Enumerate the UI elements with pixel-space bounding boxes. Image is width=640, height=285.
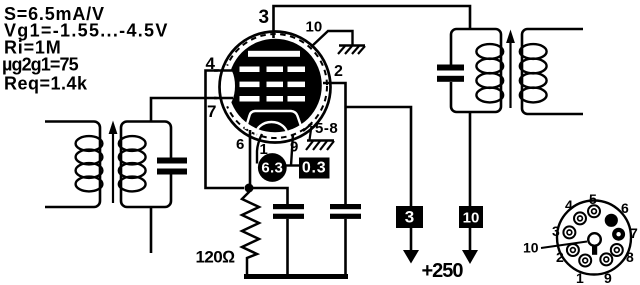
svg-text:5: 5 — [589, 191, 597, 207]
T2 tuning arrow — [506, 30, 515, 109]
capacitor C4 plates — [437, 65, 464, 82]
terminal 10 arrow — [469, 228, 472, 251]
svg-text:10: 10 — [463, 210, 480, 227]
wire g3 stub over notch — [214, 69, 233, 72]
wire shield pin10 to ground — [311, 31, 353, 47]
socket pin 7 — [612, 228, 625, 241]
tube V1 grid-lead notch — [215, 65, 235, 107]
capacitor C1 across T1 secondary — [157, 158, 187, 175]
wire cathode pin6 — [249, 130, 252, 188]
tube V1 shield dashed circle — [223, 34, 327, 138]
svg-text:9: 9 — [604, 270, 612, 285]
socket pin 8 — [611, 244, 623, 256]
wire T1 secondary bottom dangling lead — [150, 207, 153, 253]
svg-text:+250: +250 — [422, 260, 464, 282]
tube V1 cathode — [246, 111, 303, 129]
wire junction to bypass cap C2 — [249, 188, 288, 204]
svg-text:2: 2 — [334, 63, 343, 80]
ground 5-8 chassis symbol — [306, 141, 334, 151]
ground bus bar — [244, 274, 348, 279]
svg-text:1: 1 — [576, 270, 584, 285]
socket pin 6 — [605, 214, 618, 227]
tube V1 envelope circle — [220, 32, 331, 143]
svg-text:6: 6 — [236, 136, 244, 153]
heater supply 0.3A box — [299, 158, 330, 179]
svg-text:5-8: 5-8 — [315, 120, 338, 137]
wire g3 pin4 to cathode junction — [206, 71, 245, 189]
tube V1 grid g3 row — [240, 67, 306, 73]
wire heater pin1 — [257, 134, 262, 164]
T1 tuning arrow — [109, 121, 118, 204]
socket pin 1 — [579, 255, 591, 267]
socket pin 3 — [563, 226, 575, 238]
svg-text:2: 2 — [556, 249, 564, 265]
wire grid g1 line from T1 to tube — [151, 98, 231, 122]
ground top chassis symbol — [338, 46, 365, 55]
terminal 3 box — [396, 206, 423, 228]
wire heater pin9 — [291, 134, 293, 166]
svg-text:µg2g1=75: µg2g1=75 — [2, 55, 79, 75]
parameter text block — [2, 4, 169, 94]
svg-text:9: 9 — [290, 139, 298, 156]
node cathode junction dot — [245, 184, 254, 193]
wire shield pin5-8 to ground — [303, 124, 312, 141]
input transformer T1 secondary winding — [119, 122, 171, 208]
wire C2 to bus — [286, 219, 289, 276]
socket base outline circle — [557, 201, 631, 275]
svg-text:7: 7 — [630, 225, 638, 241]
socket pin 2 — [567, 244, 579, 256]
svg-text:6.3: 6.3 — [261, 160, 283, 177]
socket pin 9 — [600, 253, 612, 265]
svg-text:10: 10 — [306, 19, 323, 36]
capacitor C2 cathode bypass — [273, 204, 304, 219]
svg-text:6: 6 — [621, 200, 629, 216]
wire screen feed to terminal 3 — [346, 107, 412, 206]
input transformer T1 primary winding — [45, 122, 102, 208]
tube V1 grid g1 row — [240, 96, 306, 102]
output transformer T2 primary loop with capacitor C4 — [451, 29, 503, 112]
tube V1 grid g2 row — [240, 82, 306, 88]
svg-text:10: 10 — [523, 240, 539, 256]
socket center spigot pin 10 — [588, 233, 601, 255]
output transformer T2 secondary winding — [520, 29, 583, 114]
svg-text:3: 3 — [259, 7, 270, 28]
socket pin 4 — [574, 212, 586, 224]
svg-text:3: 3 — [405, 208, 414, 227]
heater supply 6.3V circle — [258, 153, 287, 182]
socket pin 5 — [588, 205, 600, 217]
tube V1 heater filament — [256, 122, 288, 136]
wire T2 primary bottom to terminal 10 — [469, 112, 472, 206]
svg-text:7: 7 — [207, 102, 216, 121]
wire screen pin2 stub — [323, 83, 346, 204]
resistor R1 120 ohm — [242, 188, 259, 275]
wire anode pin3 to top rail — [274, 6, 471, 38]
svg-text:8: 8 — [626, 249, 634, 265]
heater supply stub — [286, 164, 300, 166]
wire C3 to bus — [344, 219, 347, 276]
svg-text:120Ω: 120Ω — [196, 248, 236, 267]
svg-text:3: 3 — [552, 223, 560, 239]
svg-text:Req=1.4k: Req=1.4k — [4, 74, 88, 94]
terminal 10 box — [459, 206, 483, 228]
capacitor C3 screen bypass — [330, 204, 361, 219]
svg-text:0.3: 0.3 — [302, 160, 327, 177]
tube V1 black disc interior — [228, 39, 322, 133]
svg-text:4: 4 — [565, 197, 573, 213]
socket pointer line to 10 — [541, 242, 587, 249]
svg-text:4: 4 — [206, 54, 216, 73]
tube V1 anode plate — [248, 51, 300, 57]
terminal 3 arrow — [410, 228, 413, 251]
wire g1 stub over notch — [214, 97, 233, 100]
